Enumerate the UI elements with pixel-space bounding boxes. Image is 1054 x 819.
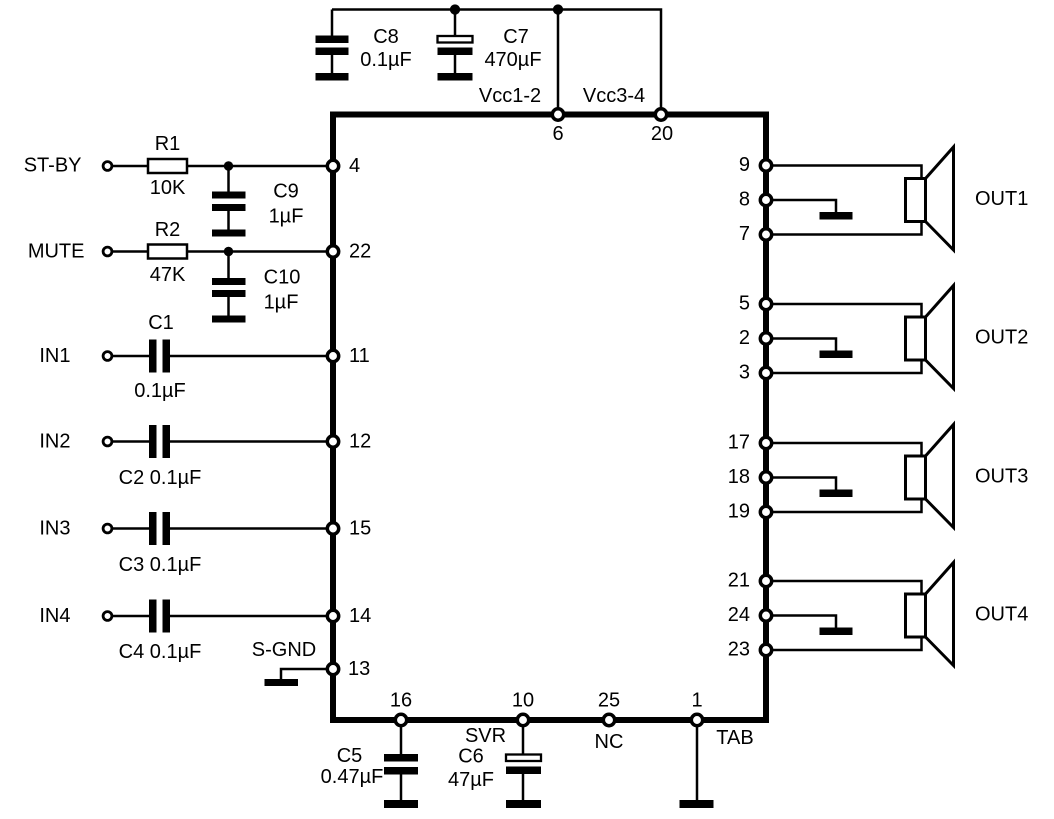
wire pin23 to speaker LS4 (766, 637, 922, 650)
ground C7 (438, 73, 473, 81)
ground C9 (212, 230, 246, 237)
svg-text:47K: 47K (150, 264, 186, 286)
pin 12 (327, 436, 338, 447)
pin 17 (760, 437, 771, 448)
svg-text:OUT1: OUT1 (975, 188, 1028, 210)
terminal IN1 (103, 352, 112, 361)
pin 7 (760, 229, 771, 240)
capacitor C1 (149, 340, 170, 373)
speaker LS4 (906, 563, 954, 666)
wire ST-BY to R1 (112, 165, 148, 168)
svg-text:IN1: IN1 (39, 345, 70, 367)
svg-text:TAB: TAB (716, 727, 753, 749)
svg-text:18: 18 (728, 466, 750, 488)
svg-text:470µF: 470µF (484, 49, 541, 71)
svg-text:R2: R2 (155, 219, 181, 241)
terminal MUTE (103, 247, 112, 256)
svg-text:22: 22 (349, 241, 371, 263)
ground C5 (384, 800, 418, 808)
svg-text:16: 16 (390, 690, 412, 712)
svg-text:1µF: 1µF (269, 206, 304, 228)
svg-text:21: 21 (728, 570, 750, 592)
pin 10 (517, 714, 528, 725)
pin 21 (760, 575, 771, 586)
wire C2 to pin 12 (170, 440, 333, 443)
svg-text:SVR: SVR (465, 725, 506, 747)
wire C1 to pin 11 (170, 355, 333, 358)
svg-text:3: 3 (739, 362, 750, 384)
wire top supply rail (332, 10, 661, 112)
svg-text:23: 23 (728, 639, 750, 661)
svg-text:15: 15 (349, 518, 371, 540)
wire pin6 stem (557, 10, 560, 112)
ground TAB (680, 800, 714, 808)
speaker LS3 (906, 425, 954, 528)
pin 6 (552, 109, 563, 120)
capacitor C9 (212, 166, 246, 230)
svg-text:0.1µF: 0.1µF (360, 49, 412, 71)
wire pin16 to C5 (400, 720, 403, 754)
terminal IN3 (103, 524, 112, 533)
terminal IN4 (103, 612, 112, 621)
pin 16 (395, 714, 406, 725)
svg-text:IN2: IN2 (39, 431, 70, 453)
IC body U1 (333, 115, 766, 721)
ground C10 (212, 316, 246, 323)
svg-text:4: 4 (349, 155, 360, 177)
wire pin2 to ground (766, 339, 836, 351)
wire MUTE to R2 (112, 250, 148, 253)
svg-text:0.47µF: 0.47µF (321, 766, 384, 788)
pin 22 (327, 246, 338, 257)
terminal ST-BY (103, 162, 112, 171)
wire pin24 to ground (766, 616, 836, 628)
wire R2 to pin 22 (187, 250, 333, 253)
pin 24 (760, 610, 771, 621)
capacitor C6 (polarized) (506, 755, 541, 801)
wire pin1 TAB to ground (696, 720, 699, 800)
wire IN4 to C4 (112, 615, 149, 618)
wire pin18 to ground (766, 478, 836, 490)
junction dot rail-pin6 (553, 4, 563, 14)
capacitor C7 (polarized) (438, 10, 473, 74)
wire pin7 to speaker LS1 (766, 222, 922, 235)
svg-text:C7: C7 (503, 26, 529, 48)
svg-text:8: 8 (739, 189, 750, 211)
pin 2 (760, 333, 771, 344)
svg-text:R1: R1 (155, 133, 181, 155)
wire pin17 to speaker LS3 (766, 443, 922, 456)
pin 5 (760, 298, 771, 309)
junction dot R1-C9 (224, 161, 233, 170)
junction dot R2-C10 (224, 247, 233, 256)
svg-text:17: 17 (728, 432, 750, 454)
wire C4 to pin 14 (170, 615, 333, 618)
wire pin21 to speaker LS4 (766, 581, 922, 594)
svg-text:C10: C10 (264, 267, 301, 289)
svg-text:20: 20 (651, 123, 673, 145)
svg-text:14: 14 (349, 605, 371, 627)
svg-text:OUT4: OUT4 (975, 604, 1028, 626)
terminal IN2 (103, 437, 112, 446)
svg-text:C3 0.1µF: C3 0.1µF (119, 554, 202, 576)
capacitor C3 (149, 512, 170, 545)
junction dot rail-C7 (450, 4, 460, 14)
svg-text:IN4: IN4 (39, 605, 70, 627)
pin 3 (760, 367, 771, 378)
wire pin10 to C6 (522, 720, 525, 754)
wire pin19 to speaker LS3 (766, 499, 922, 512)
pin 11 (327, 350, 338, 361)
svg-text:9: 9 (739, 154, 750, 176)
wire IN2 to C2 (112, 440, 149, 443)
svg-text:C8: C8 (373, 26, 399, 48)
svg-text:13: 13 (348, 658, 370, 680)
ground OUT2 (820, 351, 853, 359)
wire pin13 to ground (281, 669, 333, 679)
resistor R1 (148, 159, 187, 173)
capacitor C8 (316, 10, 349, 74)
resistor R2 (148, 245, 187, 259)
ground OUT1 (820, 212, 853, 220)
svg-text:C6: C6 (458, 746, 484, 768)
pin 9 (760, 160, 771, 171)
capacitor C2 (149, 425, 170, 458)
capacitor C5 (384, 754, 418, 800)
svg-text:11: 11 (349, 345, 370, 367)
ground C6 (506, 800, 541, 808)
svg-text:OUT2: OUT2 (975, 327, 1028, 349)
pin 4 (327, 160, 338, 171)
wire pin8 to ground (766, 200, 836, 212)
ground OUT3 (820, 490, 853, 498)
pin 25 (603, 714, 614, 725)
svg-text:S-GND: S-GND (252, 639, 316, 661)
svg-text:5: 5 (739, 293, 750, 315)
speaker LS1 (906, 147, 954, 250)
pin 20 (655, 109, 666, 120)
svg-text:OUT3: OUT3 (975, 466, 1028, 488)
svg-text:NC: NC (595, 731, 624, 753)
pin 1 (691, 714, 702, 725)
ground S-GND (265, 679, 299, 686)
pin 19 (760, 506, 771, 517)
svg-text:19: 19 (728, 501, 750, 523)
capacitor C4 (149, 600, 170, 633)
wire IN1 to C1 (112, 355, 149, 358)
svg-text:C4 0.1µF: C4 0.1µF (119, 641, 202, 663)
svg-text:C2 0.1µF: C2 0.1µF (119, 467, 202, 489)
svg-text:10K: 10K (150, 177, 186, 199)
svg-text:C9: C9 (273, 181, 299, 203)
svg-text:25: 25 (598, 690, 620, 712)
svg-text:Vcc3-4: Vcc3-4 (583, 85, 645, 107)
svg-text:47µF: 47µF (448, 769, 494, 791)
svg-text:ST-BY: ST-BY (24, 155, 82, 177)
svg-text:C5: C5 (337, 745, 363, 767)
wire pin5 to speaker LS2 (766, 304, 922, 317)
svg-text:IN3: IN3 (39, 518, 70, 540)
svg-text:C1: C1 (148, 312, 174, 334)
capacitor C10 (212, 252, 246, 316)
pin 18 (760, 472, 771, 483)
svg-text:Vcc1-2: Vcc1-2 (479, 85, 541, 107)
svg-text:1µF: 1µF (264, 292, 299, 314)
wire C3 to pin 15 (170, 527, 333, 530)
svg-text:24: 24 (728, 604, 750, 626)
svg-text:1: 1 (691, 690, 702, 712)
wire pin9 to speaker LS1 (766, 166, 922, 179)
svg-text:10: 10 (512, 690, 534, 712)
wire R1 to pin 4 (187, 165, 333, 168)
wire IN3 to C3 (112, 527, 149, 530)
speaker LS2 (906, 286, 954, 389)
wire pin3 to speaker LS2 (766, 360, 922, 373)
ground OUT4 (820, 628, 853, 636)
pin 15 (327, 523, 338, 534)
ground C8 (316, 73, 349, 81)
pin 14 (327, 610, 338, 621)
pin 13 (327, 663, 338, 674)
svg-text:12: 12 (349, 431, 371, 453)
svg-text:MUTE: MUTE (28, 241, 85, 263)
svg-text:0.1µF: 0.1µF (134, 380, 186, 402)
pin 23 (760, 644, 771, 655)
pin 8 (760, 194, 771, 205)
svg-text:6: 6 (552, 123, 563, 145)
svg-text:7: 7 (739, 223, 750, 245)
svg-text:2: 2 (739, 327, 750, 349)
